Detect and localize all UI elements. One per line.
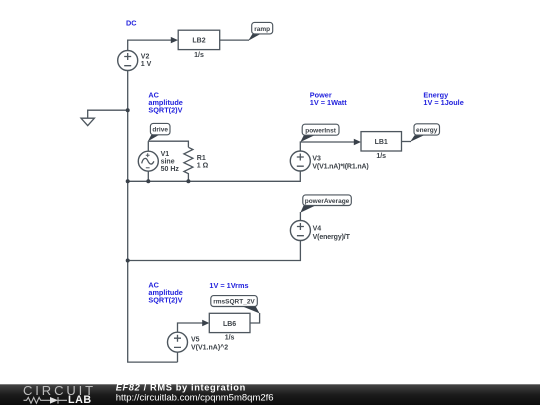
note Power 1V = 1Watt xyxy=(310,91,347,108)
flag ramp pointer xyxy=(248,34,260,41)
svg-text:LB1: LB1 xyxy=(375,139,388,146)
resistor R1 xyxy=(184,147,209,181)
wire V4 bottom bus2 xyxy=(128,241,301,261)
svg-text:LB6: LB6 xyxy=(223,321,236,328)
note Energy 1V = 1Joule xyxy=(423,91,463,108)
wire ground branch xyxy=(88,110,128,118)
integrator block LB1 xyxy=(361,132,402,160)
svg-text:DC: DC xyxy=(126,19,137,28)
flag energy xyxy=(414,124,440,135)
svg-text:V(energy)/T: V(energy)/T xyxy=(313,234,351,241)
junction R1 bottom xyxy=(186,179,190,183)
integrator block LB2 xyxy=(178,30,220,59)
junction at ground tap xyxy=(126,108,130,112)
svg-text:V4: V4 xyxy=(313,225,322,232)
voltage source V4 xyxy=(290,221,350,241)
svg-text:rmsSQRT_2V: rmsSQRT_2V xyxy=(213,299,255,306)
flag ramp xyxy=(252,22,273,34)
junction V1 bottom xyxy=(146,179,150,183)
svg-text:V(V1.nA)^2: V(V1.nA)^2 xyxy=(191,344,228,352)
svg-text:V3: V3 xyxy=(312,155,321,162)
flag powerInst pointer xyxy=(300,135,314,142)
flag powerAverage xyxy=(303,195,352,206)
flag powerInst xyxy=(302,124,339,135)
svg-text:1/s: 1/s xyxy=(225,335,235,342)
flag rmsSQRT_2V xyxy=(211,296,257,307)
junction bus2-left xyxy=(126,259,130,263)
wire drive node to R1 top xyxy=(148,141,188,147)
wire V1 bottom xyxy=(147,171,149,181)
wire V3 top to LB1 xyxy=(300,142,354,151)
svg-text:LB2: LB2 xyxy=(192,38,205,45)
integrator block LB6 xyxy=(209,313,250,341)
wire rms flag to LB6 right xyxy=(250,313,260,323)
note AC amplitude SQRT(2)V (bottom) xyxy=(148,281,182,305)
flag rmsSQRT_2V pointer xyxy=(243,307,260,314)
flag drive xyxy=(150,123,170,134)
wire V5 top to LB6 xyxy=(178,323,203,332)
svg-text:1V = 1Watt: 1V = 1Watt xyxy=(310,98,347,107)
footer bar xyxy=(0,384,540,405)
flag drive pointer xyxy=(148,135,159,141)
wire LB2 to ramp flag xyxy=(220,39,249,41)
flag energy pointer xyxy=(410,135,424,142)
svg-text:EF82 / RMS by integration: EF82 / RMS by integration xyxy=(116,382,246,392)
svg-text:http://circuitlab.com/cpqnm5m8: http://circuitlab.com/cpqnm5m8qm2f6 xyxy=(116,393,274,404)
arrow into LB6 xyxy=(202,320,209,326)
arrow into LB2 xyxy=(171,37,178,43)
logo diode xyxy=(50,397,58,404)
ground xyxy=(81,118,94,125)
svg-text:ramp: ramp xyxy=(254,26,270,33)
wire V1 top xyxy=(147,141,149,151)
wire V5 bottom xyxy=(177,352,179,362)
wire main left bus xyxy=(128,71,178,363)
logo schematic line with resistor and diode xyxy=(24,397,68,404)
arrow into LB1 xyxy=(354,139,361,145)
wire bus1 xyxy=(128,171,301,181)
wire powerAverage to V4 xyxy=(299,212,301,221)
svg-text:LAB: LAB xyxy=(68,394,92,405)
svg-text:energy: energy xyxy=(416,127,438,134)
svg-text:1V = 1Vrms: 1V = 1Vrms xyxy=(209,281,248,290)
svg-text:V(V1.nA)*I(R1.nA): V(V1.nA)*I(R1.nA) xyxy=(312,163,368,170)
voltage source V1 sine xyxy=(138,151,179,173)
flag powerAverage pointer xyxy=(300,205,316,213)
svg-text:SQRT(2)V: SQRT(2)V xyxy=(148,106,182,115)
svg-text:V2: V2 xyxy=(141,54,150,61)
svg-text:sine: sine xyxy=(161,159,175,166)
svg-text:1 Ω: 1 Ω xyxy=(197,162,209,169)
voltage source V5 xyxy=(168,332,229,352)
svg-text:1/s: 1/s xyxy=(376,153,386,160)
svg-text:drive: drive xyxy=(152,127,168,134)
wire V2 top to LB2 xyxy=(128,40,172,51)
svg-text:50 Hz: 50 Hz xyxy=(161,166,180,173)
svg-text:1V = 1Joule: 1V = 1Joule xyxy=(423,98,463,107)
wire LB1 to energy flag xyxy=(402,141,412,143)
svg-text:V5: V5 xyxy=(191,337,200,344)
note AC amplitude SQRT(2)V (top) xyxy=(148,91,182,115)
svg-text:powerAverage: powerAverage xyxy=(305,198,350,205)
svg-text:V1: V1 xyxy=(161,151,170,158)
svg-text:powerInst: powerInst xyxy=(305,127,337,134)
svg-text:SQRT(2)V: SQRT(2)V xyxy=(148,296,182,305)
svg-text:R1: R1 xyxy=(197,155,206,162)
voltage source V2 xyxy=(118,51,152,71)
svg-text:1/s: 1/s xyxy=(194,52,204,59)
voltage source V3 xyxy=(290,151,368,171)
svg-text:1 V: 1 V xyxy=(141,61,152,68)
junction bus1-left xyxy=(126,179,130,183)
